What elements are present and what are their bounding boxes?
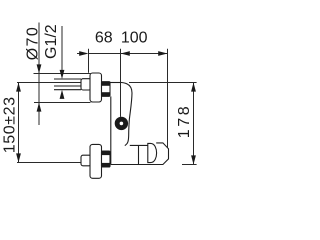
svg-text:100: 100 [121, 30, 148, 47]
svg-text:178: 178 [176, 104, 193, 139]
svg-text:150±23: 150±23 [1, 96, 18, 153]
svg-text:G1/2: G1/2 [43, 24, 60, 59]
svg-text:68: 68 [95, 30, 113, 47]
